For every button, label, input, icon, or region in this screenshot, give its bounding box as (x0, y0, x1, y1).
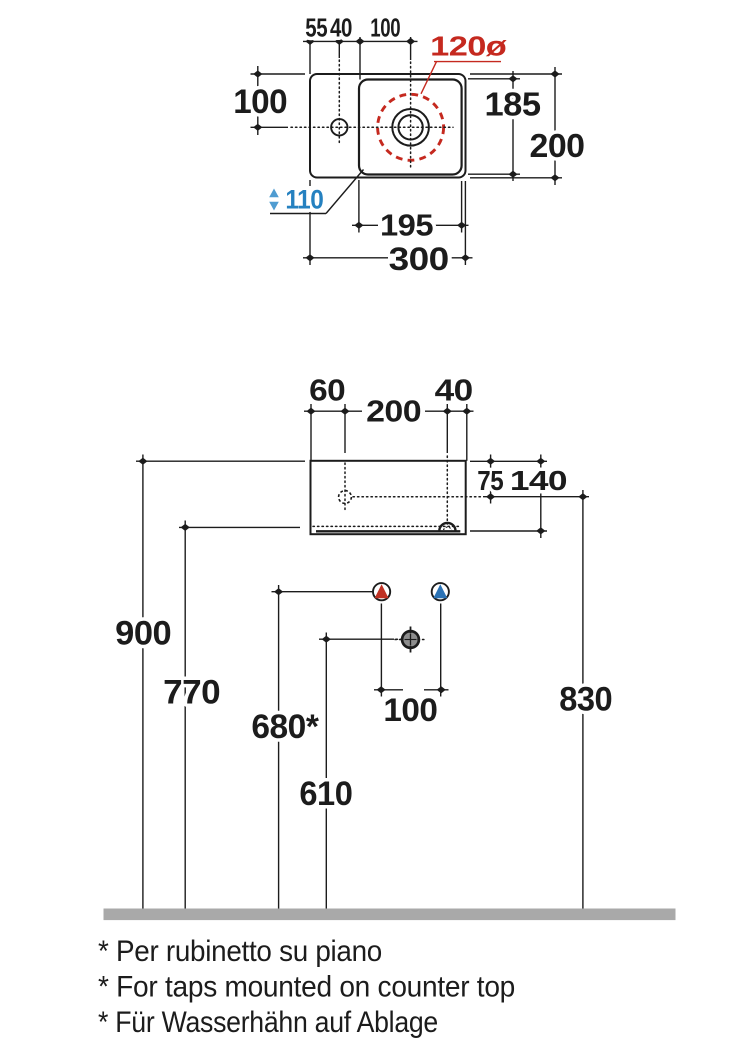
svg-text:195: 195 (380, 208, 433, 243)
svg-text:60: 60 (309, 373, 345, 408)
svg-text:900: 900 (115, 615, 171, 653)
svg-text:120ø: 120ø (430, 31, 506, 62)
svg-text:* Per rubinetto su piano: * Per rubinetto su piano (98, 935, 382, 968)
svg-text:100: 100 (383, 692, 437, 728)
svg-text:75: 75 (477, 465, 503, 496)
svg-text:610: 610 (299, 775, 352, 813)
svg-text:770: 770 (163, 674, 220, 712)
svg-text:40: 40 (435, 373, 473, 408)
svg-text:680*: 680* (251, 708, 319, 746)
svg-text:185: 185 (485, 86, 541, 123)
svg-text:55: 55 (305, 13, 327, 43)
svg-text:200: 200 (530, 127, 585, 164)
svg-text:830: 830 (559, 681, 612, 719)
svg-text:300: 300 (389, 241, 449, 277)
svg-text:* For taps mounted on counter: * For taps mounted on counter top (98, 971, 515, 1004)
svg-text:100: 100 (233, 83, 287, 121)
svg-text:40: 40 (330, 13, 352, 43)
svg-text:110: 110 (285, 184, 323, 214)
svg-text:200: 200 (366, 394, 421, 429)
svg-text:100: 100 (370, 13, 400, 43)
svg-text:* Für Wasserhähn auf Ablage: * Für Wasserhähn auf Ablage (98, 1006, 438, 1039)
svg-text:140: 140 (510, 465, 567, 496)
